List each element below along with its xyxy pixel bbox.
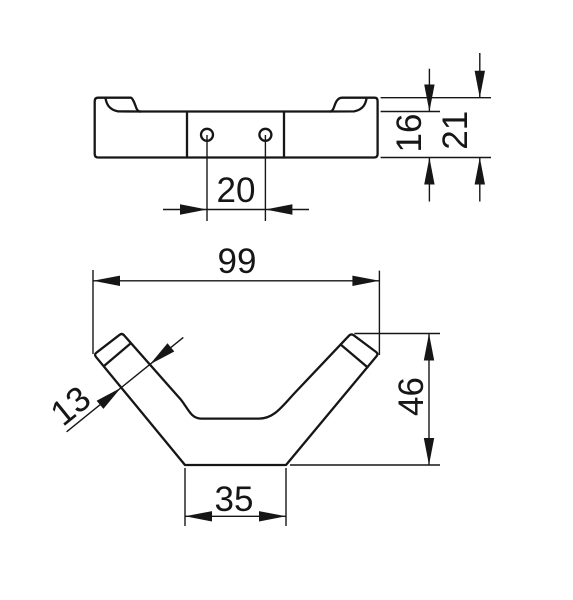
- left division line: [186, 112, 188, 158]
- ext line bottom 16/21: [381, 157, 491, 159]
- right tip chamfer line: [342, 345, 368, 367]
- top view body outline: [95, 98, 378, 158]
- ext line top 16: [381, 111, 440, 113]
- dim line 20: [163, 209, 309, 211]
- arrow 35 left: [185, 511, 212, 521]
- dim line 16: [428, 69, 430, 202]
- dim line 99: [93, 280, 379, 282]
- arrow 16 top: [424, 85, 434, 112]
- ext line 35 right: [285, 468, 287, 526]
- hook outline (front view): [95, 334, 377, 465]
- arrow 21 bottom: [475, 158, 485, 185]
- ext line 99 right: [378, 271, 380, 355]
- arrow 20 left: [180, 204, 207, 214]
- ext line 46 bottom: [290, 464, 440, 466]
- ext line 99 left: [92, 270, 94, 354]
- arrow 13 upper: [150, 343, 174, 364]
- dim line 21: [479, 53, 481, 202]
- ext line 46 top: [354, 333, 440, 335]
- arrow 35 right: [259, 511, 286, 521]
- svg-text:16: 16: [390, 114, 429, 153]
- arrow 46 top: [424, 334, 434, 361]
- dim line 46: [428, 334, 430, 466]
- ext line hole left: [206, 135, 208, 221]
- dim line 35: [185, 515, 286, 517]
- hole right: [259, 129, 271, 141]
- ext line top 21: [381, 97, 491, 99]
- arrow 99 right: [352, 276, 379, 286]
- arrow 99 left: [93, 276, 120, 286]
- svg-text:46: 46: [392, 377, 431, 416]
- svg-text:20: 20: [217, 171, 256, 210]
- ext line 35 left: [184, 468, 186, 526]
- arrow 46 bottom: [424, 438, 434, 465]
- svg-text:21: 21: [436, 111, 475, 150]
- left tip chamfer line: [104, 344, 131, 367]
- hole left: [201, 129, 213, 141]
- arrow 13 lower: [97, 388, 121, 409]
- ext line hole right: [264, 135, 266, 221]
- left step inner curve: [106, 98, 142, 111]
- leader line 13: [67, 337, 184, 431]
- right step inner curve: [330, 98, 367, 111]
- svg-text:13: 13: [43, 379, 98, 434]
- svg-text:35: 35: [215, 480, 254, 519]
- arrow 21 top: [475, 71, 485, 98]
- right division line: [283, 112, 285, 158]
- svg-text:99: 99: [218, 242, 257, 281]
- arrow 16 bottom: [424, 158, 434, 185]
- arrow 20 right: [265, 204, 292, 214]
